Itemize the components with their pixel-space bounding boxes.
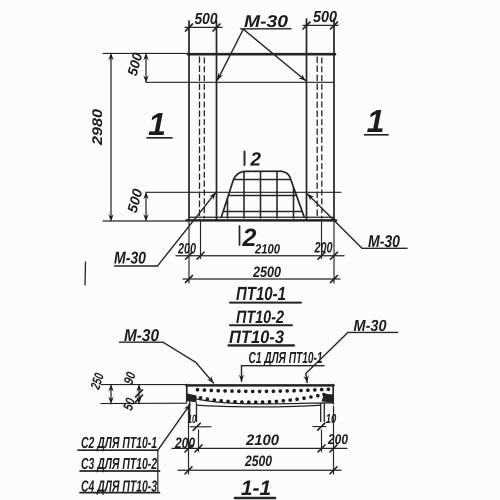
loop level line lower xyxy=(146,191,341,193)
svg-text:М-30: М-30 xyxy=(244,12,289,31)
svg-text:ПТ10-1: ПТ10-1 xyxy=(236,284,286,305)
svg-text:90: 90 xyxy=(121,370,139,386)
section ticks 2500 xyxy=(185,467,192,474)
ticks 200/2100/200 (top view) xyxy=(186,252,193,259)
slab left end xyxy=(186,385,188,402)
dim 500 top-right ticks xyxy=(303,22,310,29)
dim 90/50 mid ticks xyxy=(136,390,143,397)
svg-text:2500: 2500 xyxy=(252,264,281,281)
svg-text:10: 10 xyxy=(326,411,337,426)
svg-text:М-30: М-30 xyxy=(124,326,159,345)
svg-text:1: 1 xyxy=(148,106,166,142)
dim 500 upper-left: dimension line xyxy=(145,53,147,82)
stray mark (fold line) xyxy=(84,262,87,285)
svg-text:ПТ10-2: ПТ10-2 xyxy=(236,307,284,327)
label PT10-1 underline xyxy=(230,302,301,304)
right wall dashed void line 2 xyxy=(321,58,323,218)
right wall outer edge xyxy=(333,19,335,221)
right wall inner edge xyxy=(306,19,308,221)
svg-text:С4 ДЛЯ ПТ10-3: С4 ДЛЯ ПТ10-3 xyxy=(81,479,157,496)
section ext x=188.5 xyxy=(188,405,190,474)
dim 500 top-left: dimension line xyxy=(185,26,222,28)
section mark 2 (upper) xyxy=(244,152,246,166)
section ext x=333.5 xyxy=(333,406,335,474)
svg-text:200: 200 xyxy=(327,431,348,447)
right wall dashed void line 1 xyxy=(316,57,318,218)
slab soffit curve (far edge between stubs) xyxy=(197,405,321,407)
section ext x=321.5 xyxy=(321,430,323,452)
left wall inner edge xyxy=(216,21,218,221)
section left ext line top xyxy=(101,384,187,386)
mesh list underline C4 xyxy=(80,492,160,494)
slab top edge xyxy=(187,384,334,387)
dim 10 left tick xyxy=(193,423,200,430)
dim 2980: extension line top xyxy=(103,52,188,54)
dim 90/50: dimension line xyxy=(138,385,140,404)
section dim line 200/2100/200 xyxy=(172,447,347,449)
label 1 (right) underline xyxy=(365,134,389,136)
svg-text:2980: 2980 xyxy=(89,109,105,146)
leader M-30 top left branch xyxy=(218,30,244,80)
svg-text:200: 200 xyxy=(314,240,333,257)
label M-30 top underline xyxy=(241,28,292,30)
slab end blob left xyxy=(188,394,197,403)
panel top edge xyxy=(188,53,335,56)
svg-text:500: 500 xyxy=(313,9,337,26)
dim 500 top-left ticks xyxy=(186,24,193,31)
dim line 2500 (top view) xyxy=(183,278,340,280)
title 1-1 underline xyxy=(235,497,275,500)
svg-text:10: 10 xyxy=(188,412,197,426)
dim 250: dimension line xyxy=(110,385,112,404)
leader M-30 section-left xyxy=(163,342,214,383)
svg-text:200: 200 xyxy=(174,435,195,452)
svg-text:50: 50 xyxy=(120,396,138,412)
leader M-30 mid-right xyxy=(308,194,363,248)
svg-text:ПТ10-3: ПТ10-3 xyxy=(229,327,284,347)
bottom dims: extension x=200.5 xyxy=(200,222,202,259)
leader M-30 section-right xyxy=(306,332,348,382)
svg-text:С2 ДЛЯ ПТ10-1: С2 ДЛЯ ПТ10-1 xyxy=(81,435,157,452)
svg-text:1: 1 xyxy=(367,103,385,139)
mesh list leader to stub xyxy=(158,405,190,451)
svg-text:М-30: М-30 xyxy=(368,232,400,251)
svg-text:С3 ДЛЯ ПТ10-2: С3 ДЛЯ ПТ10-2 xyxy=(81,456,157,473)
label M-30 mid-right underline xyxy=(362,247,407,249)
label M-30 section-right underline xyxy=(348,331,398,333)
slab right end xyxy=(332,385,334,404)
bottom dims: extension x=189 xyxy=(188,222,190,283)
leader M-30 mid-left xyxy=(158,193,216,266)
svg-text:250: 250 xyxy=(87,371,107,392)
svg-text:М-30: М-30 xyxy=(114,249,146,268)
label 1 (left) underline xyxy=(147,137,172,139)
section ext x=198.5 xyxy=(198,430,200,452)
dim 2980: dimension line xyxy=(110,53,112,221)
svg-text:200: 200 xyxy=(177,241,196,258)
section dim line 2500 xyxy=(178,469,341,471)
left wall dashed void line 2 xyxy=(203,58,205,218)
left wall outer edge xyxy=(188,21,190,221)
mesh list underline C2 xyxy=(78,449,158,451)
bottom rebar dots row xyxy=(199,393,326,404)
dim 10 right tick xyxy=(318,423,325,430)
panel bottom edge thin xyxy=(189,216,334,218)
dim 10 left: dimension line xyxy=(190,426,211,428)
svg-text:2500: 2500 xyxy=(244,453,272,470)
svg-text:2100: 2100 xyxy=(254,242,280,257)
label C1 leader horizontal xyxy=(242,365,325,367)
wall stub left xyxy=(189,402,191,422)
slab soffit curve (near edge) xyxy=(187,397,333,404)
label PT10-2 underline xyxy=(230,324,292,326)
panel bottom edge thick xyxy=(187,219,337,222)
mesh grid lines xyxy=(219,169,306,219)
svg-text:2100: 2100 xyxy=(245,432,280,449)
bottom dims: extension x=321.5 xyxy=(321,222,323,259)
slab end blob right xyxy=(322,394,334,403)
top rebar dots row xyxy=(196,388,331,394)
dim 500 top-right: dimension line xyxy=(303,24,338,26)
section mark 2 (lower) xyxy=(239,226,241,245)
wall stub right xyxy=(320,404,322,422)
bottom dims: extension x=334 xyxy=(333,222,335,283)
section left ext line bottom xyxy=(101,402,187,404)
svg-text:С1 ДЛЯ ПТ10-1: С1 ДЛЯ ПТ10-1 xyxy=(249,350,323,367)
svg-text:2: 2 xyxy=(249,150,261,171)
dim 2980: extension line bottom xyxy=(103,220,188,222)
loop level line upper xyxy=(146,81,334,83)
ticks 2500 (top view) xyxy=(186,276,193,283)
svg-text:М-30: М-30 xyxy=(354,318,387,335)
dim line 200/2100/200 (top view) xyxy=(176,255,344,257)
reinforcing mesh dome outline xyxy=(221,171,304,217)
dim 10 right: dimension line xyxy=(313,426,326,428)
leader M-30 top right branch xyxy=(244,30,306,81)
svg-text:1-1: 1-1 xyxy=(241,477,271,500)
dim 500 lower-left: dimension line xyxy=(145,192,147,221)
svg-text:500: 500 xyxy=(124,51,145,78)
section ticks 200/2100/200 xyxy=(185,445,192,452)
mesh list connector vertical xyxy=(157,450,159,492)
svg-text:500: 500 xyxy=(195,11,218,28)
left wall dashed void line 1 xyxy=(199,57,201,218)
label M-30 section-left underline xyxy=(120,341,164,343)
label PT10-3 underline xyxy=(229,344,295,346)
label C1 leader drop xyxy=(241,366,243,382)
mesh list underline C3 xyxy=(80,470,160,472)
label M-30 mid-left underline xyxy=(115,265,158,267)
svg-text:500: 500 xyxy=(124,187,146,215)
